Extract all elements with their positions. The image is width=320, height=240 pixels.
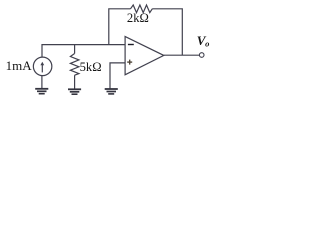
wire feedback top right to right vertical down to output: [152, 9, 182, 55]
wire noninverting input to left: [110, 63, 125, 89]
resistor R 5k zigzag: [70, 54, 79, 76]
current source I1 circle: [33, 57, 52, 76]
current source arrowhead: [40, 62, 44, 65]
node T-junction above 5k resistor: [74, 45, 76, 54]
wire top rail from current source to op-amp inverting input: [42, 45, 125, 58]
svg-text:2kΩ: 2kΩ: [127, 11, 149, 25]
wire output to terminal: [164, 54, 200, 56]
svg-text:o: o: [205, 38, 209, 48]
wire 5k resistor bottom to ground: [74, 75, 76, 89]
svg-text:5kΩ: 5kΩ: [80, 60, 102, 74]
svg-text:1mA: 1mA: [6, 58, 33, 73]
resistor Rf 2k zigzag: [131, 5, 153, 13]
op-amp plus symbol: [127, 60, 132, 65]
ground under current source: [35, 89, 48, 94]
current source arrow: [41, 64, 43, 72]
output terminal circle: [199, 53, 204, 58]
op-amp U1 triangle: [125, 37, 164, 75]
op-amp minus symbol: [128, 44, 134, 46]
wire feedback left vertical from inverting node up: [109, 9, 131, 45]
wire current source bottom to ground: [41, 76, 43, 89]
ground under op-amp noninverting input: [105, 89, 118, 94]
ground under 5k resistor: [68, 89, 81, 94]
